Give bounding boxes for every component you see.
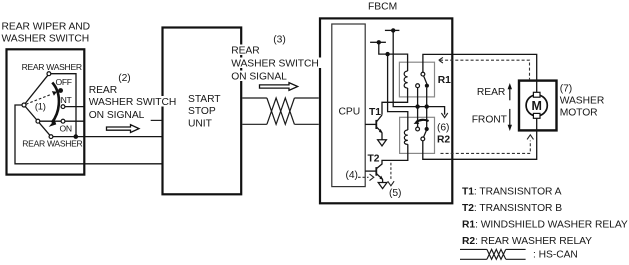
svg-text:(1): (1) bbox=[35, 101, 46, 112]
svg-text:(4): (4) bbox=[346, 170, 358, 181]
svg-text:INT: INT bbox=[59, 95, 73, 105]
svg-text:(5): (5) bbox=[389, 188, 401, 199]
svg-text:REAR WIPER AND: REAR WIPER AND bbox=[2, 22, 91, 33]
svg-text:START: START bbox=[188, 94, 221, 105]
svg-text:(3): (3) bbox=[273, 35, 285, 46]
svg-text:R1: R1 bbox=[438, 75, 451, 86]
svg-text:REAR: REAR bbox=[89, 85, 117, 96]
svg-text:REAR WASHER: REAR WASHER bbox=[22, 62, 82, 72]
svg-text:ON SIGNAL: ON SIGNAL bbox=[231, 72, 287, 83]
svg-text:T1: TRANSISNTOR A: T1: TRANSISNTOR A bbox=[462, 186, 562, 197]
svg-text:R2: REAR WASHER RELAY: R2: REAR WASHER RELAY bbox=[462, 236, 592, 247]
svg-text:REAR WASHER: REAR WASHER bbox=[22, 139, 82, 149]
svg-text:(2): (2) bbox=[118, 73, 130, 84]
svg-text:WASHER SWITCH: WASHER SWITCH bbox=[2, 34, 90, 45]
svg-text:R2: R2 bbox=[437, 134, 450, 145]
svg-text:(7): (7) bbox=[560, 84, 572, 95]
svg-text:CPU: CPU bbox=[339, 106, 361, 117]
svg-text:M: M bbox=[531, 99, 541, 113]
svg-text:UNIT: UNIT bbox=[188, 118, 213, 129]
svg-text:FBCM: FBCM bbox=[368, 2, 397, 13]
svg-text:FRONT: FRONT bbox=[472, 115, 508, 126]
svg-text:STOP: STOP bbox=[188, 106, 216, 117]
svg-text:OFF: OFF bbox=[56, 77, 72, 87]
svg-text:(6): (6) bbox=[437, 123, 449, 134]
svg-text:REAR: REAR bbox=[231, 46, 259, 57]
svg-text:T1: T1 bbox=[369, 107, 381, 118]
svg-text:MOTOR: MOTOR bbox=[560, 108, 598, 119]
svg-text:WASHER SWITCH: WASHER SWITCH bbox=[231, 59, 319, 70]
svg-text:ON: ON bbox=[60, 124, 72, 134]
svg-text:REAR: REAR bbox=[477, 87, 505, 98]
svg-text:WASHER: WASHER bbox=[560, 96, 605, 107]
svg-text:: HS-CAN: : HS-CAN bbox=[533, 249, 578, 260]
svg-text:T2: TRANSISNTOR B: T2: TRANSISNTOR B bbox=[462, 203, 562, 214]
svg-text:ON SIGNAL: ON SIGNAL bbox=[89, 110, 145, 121]
svg-text:WASHER SWITCH: WASHER SWITCH bbox=[89, 97, 177, 108]
svg-text:R1: WINDSHIELD WASHER RELAY: R1: WINDSHIELD WASHER RELAY bbox=[462, 219, 628, 230]
svg-text:T2: T2 bbox=[368, 153, 380, 164]
